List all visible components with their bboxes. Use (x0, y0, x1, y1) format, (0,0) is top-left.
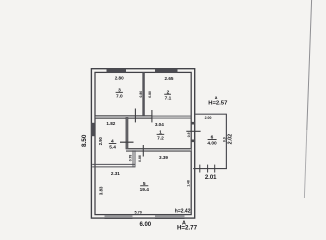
tick annex bottom 2 (207, 165, 209, 173)
room 1 label (157, 129, 165, 141)
door tick wall V2 (120, 141, 134, 143)
svg-text:H=2.57: H=2.57 (208, 100, 228, 106)
wall B (room 5 top-left) (92, 164, 135, 167)
svg-text:2.31: 2.31 (111, 171, 120, 176)
tick annex bottom 3 (214, 165, 216, 173)
window bottom-left (105, 214, 133, 219)
door tick wall A left (134, 109, 136, 123)
svg-text:1.82: 1.82 (106, 121, 115, 126)
annex right wall (225, 114, 227, 169)
svg-text:0.86: 0.86 (138, 155, 142, 162)
svg-text:2.65: 2.65 (165, 76, 174, 81)
window top-left (107, 69, 127, 73)
window bottom-right (155, 214, 185, 219)
svg-text:8.50: 8.50 (81, 134, 88, 147)
door jamb right wall upper (191, 122, 195, 125)
svg-text:h=2.42: h=2.42 (175, 209, 191, 215)
window left wall (91, 123, 95, 136)
door jamb right wall lower (191, 140, 195, 143)
svg-text:1.48: 1.48 (186, 180, 190, 187)
svg-text:7.2: 7.2 (157, 136, 164, 142)
wall A gray band (rooms 3-4 divider) (96, 116, 153, 119)
room 5 label (140, 181, 150, 193)
svg-text:5.4: 5.4 (109, 145, 116, 151)
door tick wall A right (151, 110, 153, 122)
annex room 6 top wall (195, 113, 227, 115)
svg-text:4.00: 4.00 (207, 141, 217, 147)
svg-text:2.01: 2.01 (205, 175, 217, 181)
svg-text:6.00: 6.00 (139, 222, 151, 228)
door tick wall C (142, 145, 144, 157)
svg-text:H=2.77: H=2.77 (177, 225, 198, 232)
svg-text:2.00: 2.00 (205, 116, 212, 120)
outer wall (main building) (91, 69, 194, 218)
tick annex bottom 1 (199, 165, 201, 173)
svg-text:3.83: 3.83 (98, 186, 103, 195)
room 4 label (109, 139, 117, 151)
wall V1 between rooms 3 and 2 (143, 72, 145, 117)
svg-text:0.9: 0.9 (223, 137, 227, 142)
svg-text:2.90: 2.90 (98, 136, 103, 145)
svg-text:0.80: 0.80 (148, 91, 152, 98)
window top-right (155, 69, 178, 73)
svg-text:7.1: 7.1 (165, 96, 172, 102)
room 6 label (207, 134, 217, 146)
svg-text:19.4: 19.4 (140, 187, 150, 193)
room 2 label (164, 89, 171, 101)
annex bottom wall (193, 168, 227, 170)
page edge line (304, 0, 311, 198)
svg-text:0.80: 0.80 (139, 91, 143, 98)
wall V2 (room 4 right) (126, 118, 128, 150)
svg-text:7.0: 7.0 (116, 94, 123, 100)
room 3 label (116, 87, 123, 99)
wall C gray band (above room 5) (126, 148, 191, 151)
svg-text:3.39: 3.39 (159, 155, 168, 160)
wall V3 (closet side) (133, 151, 135, 168)
svg-text:a: a (215, 95, 218, 100)
svg-text:0.78: 0.78 (128, 155, 132, 162)
wall A thin part to right wall (152, 116, 191, 118)
svg-text:5.70: 5.70 (135, 211, 142, 215)
svg-text:2.80: 2.80 (115, 76, 124, 81)
door tick right wall (186, 130, 200, 132)
svg-text:0.9: 0.9 (187, 132, 191, 137)
svg-text:2.02: 2.02 (227, 134, 233, 145)
svg-text:3.04: 3.04 (155, 122, 164, 127)
